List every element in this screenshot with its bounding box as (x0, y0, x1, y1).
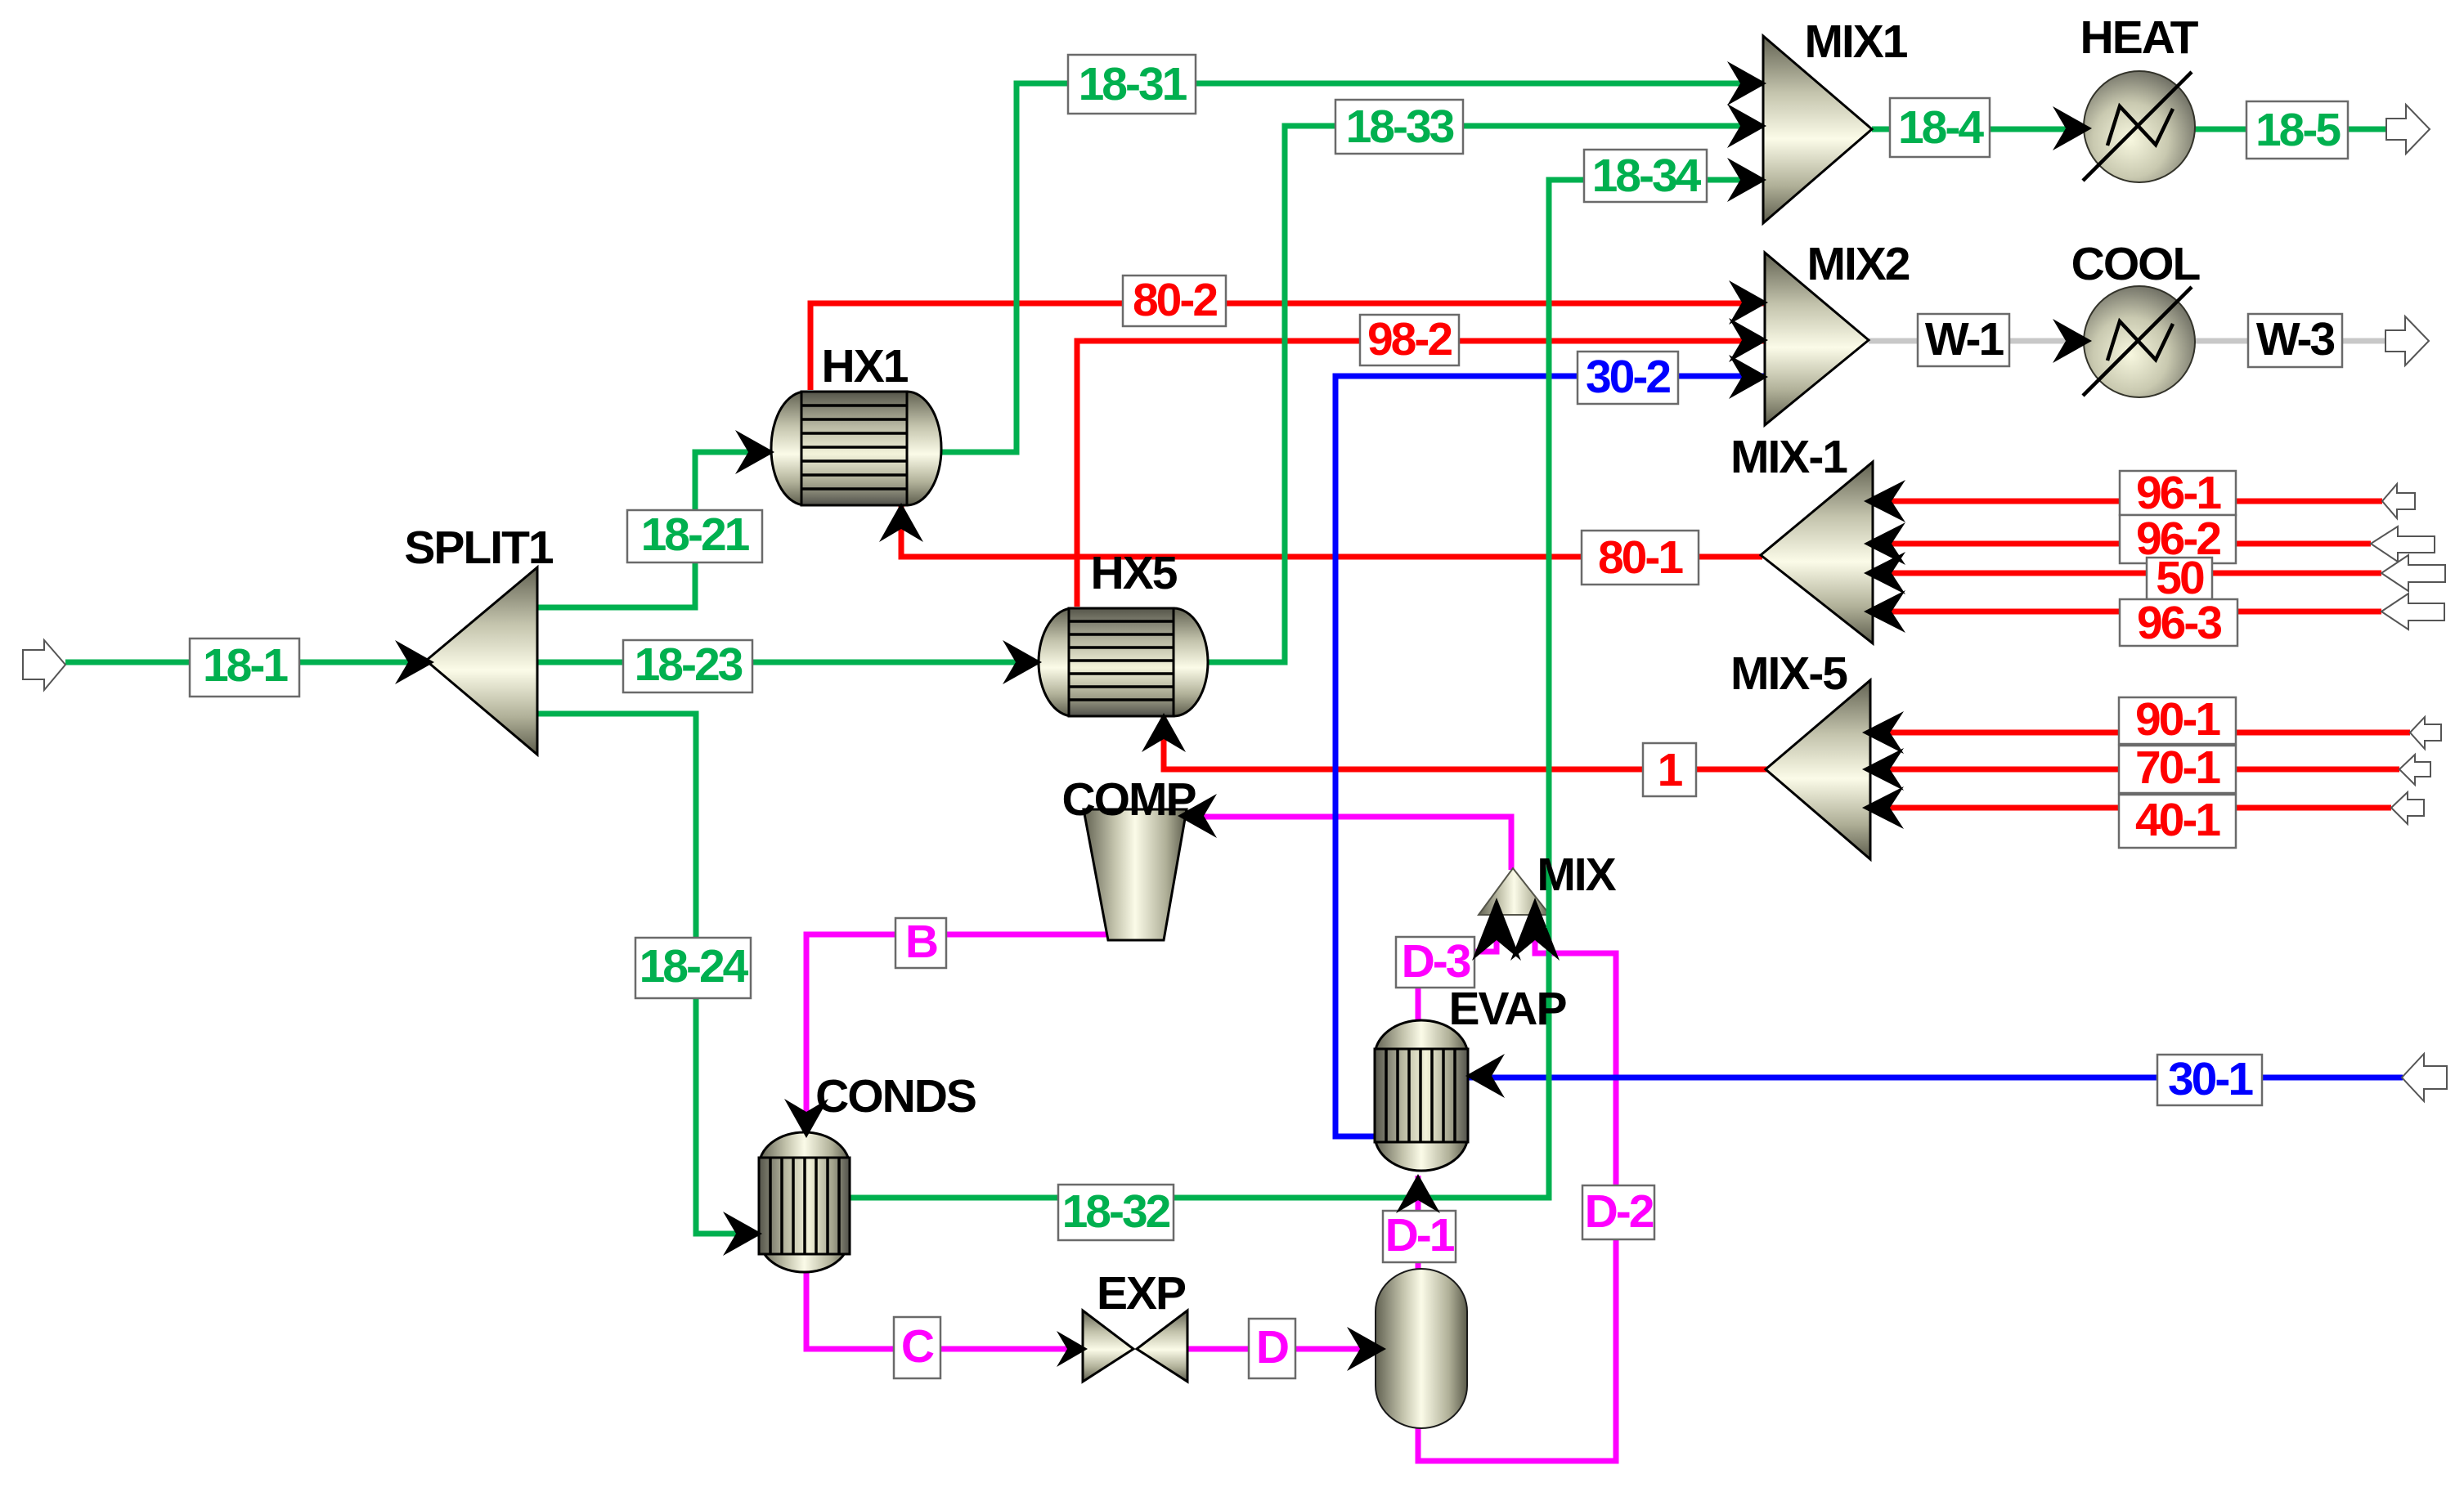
node 90-1 label (2119, 693, 2236, 746)
heat exchanger HX1 (771, 392, 941, 505)
arrow into SPLIT1 (395, 640, 434, 684)
wire 80-1 (MIX-1 outlet to HX1 bottom) (901, 504, 1762, 557)
svg-text:MIX2: MIX2 (1806, 238, 1909, 290)
node 96-3 label (2120, 597, 2237, 649)
arrow into MIX1 in1 (1727, 61, 1766, 105)
flash drum (1376, 1269, 1467, 1428)
wire D-2 (flash drum bottom to MIX) (1418, 917, 1616, 1461)
svg-text:HX5: HX5 (1091, 547, 1178, 599)
svg-text:18-34: 18-34 (1592, 150, 1702, 202)
wire 18-24 (SPLIT1 to CONDS) (536, 714, 761, 1234)
arrow into flash drum (1347, 1327, 1386, 1371)
arrow into MIX-1 in2 (1864, 522, 1905, 565)
arrow into MIX2 in2 (1729, 318, 1768, 362)
feed open-arrow 96-2 (2371, 526, 2435, 562)
node 18-34 label (1584, 150, 1707, 202)
arrow into EVAP shell (1465, 1054, 1505, 1098)
svg-text:CONDS: CONDS (815, 1070, 976, 1122)
wire 18-31 (HX1 to MIX1) (940, 83, 1768, 452)
arrow into COMP (1178, 794, 1217, 838)
node 30-1 label (2157, 1053, 2262, 1105)
svg-text:HEAT: HEAT (2080, 11, 2199, 64)
arrow into HX5 shell side (1142, 713, 1186, 752)
wire D-3 (EVAP top to MIX) (1418, 917, 1497, 1022)
feed open-arrow 30-1 (2402, 1054, 2447, 1101)
node B label (895, 916, 946, 968)
svg-text:18-5: 18-5 (2255, 104, 2341, 156)
arrow into CONDS side (723, 1212, 762, 1256)
node W-3 label (2248, 313, 2342, 367)
svg-text:SPLIT1: SPLIT1 (404, 522, 554, 574)
node 96-1 label (2120, 467, 2236, 519)
mixer MIX (small) (1479, 868, 1550, 915)
wire 96-3 input (1866, 609, 2381, 615)
feed open-arrow 40-1 (2391, 792, 2424, 824)
node D-2 label (1582, 1185, 1654, 1239)
arrow into MIX-1 in3 (1864, 552, 1905, 594)
arrow into MIX-1 in1 (1864, 480, 1905, 522)
svg-text:MIX1: MIX1 (1804, 16, 1907, 68)
wire 98-2 (HX5 top to MIX2) (1077, 341, 1766, 607)
arrow into HX1 shell side (879, 503, 923, 542)
svg-text:30-2: 30-2 (1586, 351, 1670, 403)
arrow into MIX1 in2 (1727, 104, 1766, 148)
arrow into MIX1 in3 (1727, 158, 1766, 202)
node 98-2 label (1360, 313, 1459, 365)
wire 18-33 (HX5 to MIX1) (1206, 126, 1768, 662)
svg-text:96-3: 96-3 (2137, 597, 2221, 649)
node 18-33 label (1335, 100, 1463, 154)
arrow into COOL (2053, 319, 2092, 363)
arrow into EXP (1057, 1331, 1088, 1367)
svg-text:MIX-1: MIX-1 (1730, 431, 1847, 483)
compressor COMP (1084, 809, 1187, 940)
feed open-arrow 96-3 (2381, 594, 2444, 630)
node 18-23 label (623, 638, 752, 692)
feed open-arrow 96-1 (2382, 484, 2415, 518)
wire D-1 (flash drum top to EVAP bottom) (1416, 1176, 1421, 1272)
wire MIX outlet to COMP inlet (1179, 817, 1511, 870)
svg-text:80-1: 80-1 (1598, 531, 1683, 584)
node 70-1 label (2119, 742, 2236, 794)
arrow into CONDS top (784, 1099, 828, 1138)
feed open-arrow 50 (2381, 555, 2445, 591)
arrow into MIX in2 (1510, 898, 1560, 961)
svg-text:18-24: 18-24 (640, 940, 749, 992)
svg-text:COOL: COOL (2071, 238, 2201, 290)
node 80-2 label (1123, 274, 1226, 326)
feed open-arrow 18-1 (23, 640, 65, 690)
cooler COOL (2083, 286, 2195, 397)
svg-text:18-21: 18-21 (641, 509, 750, 561)
svg-text:MIX-5: MIX-5 (1730, 647, 1847, 700)
product open-arrow W-3 (2385, 316, 2429, 365)
svg-text:W-3: W-3 (2256, 313, 2335, 365)
arrow into HX1 tube side (735, 430, 774, 474)
svg-text:80-2: 80-2 (1133, 274, 1217, 326)
wire 18-34 overlay over MIX cone (1546, 854, 1552, 928)
wire 18-5 (HEAT outlet) (2193, 127, 2404, 132)
node 18-31 label (1068, 55, 1196, 114)
svg-text:MIX: MIX (1537, 849, 1616, 901)
svg-text:18-23: 18-23 (635, 638, 743, 691)
wire 96-2 input (1866, 541, 2371, 547)
wire 80-2 (HX1 top to MIX2) (810, 303, 1766, 390)
svg-text:D-1: D-1 (1385, 1209, 1455, 1261)
arrow into MIX-5 in2 (1862, 748, 1904, 791)
BOXES (190, 55, 2348, 1378)
svg-text:D-3: D-3 (1402, 935, 1470, 988)
wire 70-1 input (1865, 767, 2399, 773)
arrow into HX5 tube side (1003, 640, 1042, 684)
wire W-3 (COOL outlet) (2193, 338, 2403, 344)
wire 90-1 input (1865, 730, 2410, 736)
node 96-2 label (2120, 513, 2236, 565)
wire 18-32 / 18-34 (CONDS to MIX1) (848, 180, 1768, 1198)
svg-text:96-1: 96-1 (2136, 467, 2221, 519)
node 18-1 label (190, 638, 299, 697)
node D-1 label (1383, 1209, 1456, 1262)
svg-text:18-32: 18-32 (1062, 1185, 1170, 1238)
svg-text:1: 1 (1658, 744, 1683, 796)
condenser CONDS (759, 1132, 850, 1272)
node D-3 label (1396, 935, 1474, 988)
svg-text:D-2: D-2 (1585, 1185, 1654, 1238)
node 18-4 label (1890, 98, 1990, 157)
svg-text:EXP: EXP (1097, 1267, 1186, 1320)
node 1 label (1643, 743, 1696, 796)
arrow into MIX-1 in4 (1864, 590, 1905, 633)
wire 50 input (1866, 571, 2381, 576)
svg-text:90-1: 90-1 (2135, 693, 2220, 746)
arrow into MIX-5 in1 (1862, 711, 1904, 754)
node 30-2 label (1578, 351, 1678, 404)
wire 30-1 (input to EVAP shell) (1467, 1075, 2403, 1081)
node D label (1249, 1319, 1295, 1378)
wire 18-23 (SPLIT1 to HX5) (536, 660, 1040, 665)
svg-text:18-4: 18-4 (1898, 101, 1984, 154)
mixer MIX-5 (1766, 680, 1870, 859)
wire 30-2 (EVAP shell to MIX2) (1335, 376, 1766, 1136)
wire 96-1 input (1866, 499, 2382, 504)
node 50 label (2147, 552, 2212, 604)
heater HEAT (2083, 71, 2195, 182)
node 18-5 label (2246, 101, 2348, 159)
wire 18-1 (feed to SPLIT1) (65, 660, 429, 665)
node 18-24 label (635, 938, 751, 998)
arrow into HEAT (2053, 106, 2092, 150)
arrow into MIX2 in3 (1729, 355, 1768, 399)
svg-text:98-2: 98-2 (1367, 313, 1452, 365)
arrow into MIX-5 in3 (1862, 786, 1904, 829)
product open-arrow 18-5 (2386, 105, 2430, 154)
node 80-1 label (1582, 531, 1699, 585)
node 40-1 label (2119, 794, 2236, 848)
TITLES (404, 11, 2200, 1320)
arrow into MIX in1 (1472, 898, 1521, 961)
svg-text:C: C (901, 1320, 934, 1373)
valve EXP (1083, 1311, 1187, 1382)
splitter SPLIT1 (426, 567, 537, 755)
wire D (EXP to flash drum) (1187, 1346, 1380, 1352)
wire 18-21 (SPLIT1 to HX1) (536, 452, 773, 607)
svg-text:W-1: W-1 (1925, 313, 2004, 365)
svg-text:HX1: HX1 (822, 340, 909, 392)
svg-text:18-1: 18-1 (203, 639, 288, 692)
svg-text:40-1: 40-1 (2135, 794, 2220, 846)
mixer MIX1 (1763, 36, 1872, 223)
mixer MIX-1 (1761, 462, 1873, 643)
wire C (CONDS bottom to EXP) (806, 1270, 1081, 1349)
feed open-arrow 90-1 (2410, 717, 2441, 749)
svg-text:EVAP: EVAP (1449, 983, 1567, 1035)
svg-text:D: D (1256, 1321, 1288, 1373)
wire W-1 (MIX2 outlet to COOL) (1869, 338, 2085, 344)
node W-1 label (1918, 313, 2009, 366)
svg-text:18-31: 18-31 (1079, 58, 1187, 110)
wire 40-1 input (1865, 805, 2391, 811)
svg-text:18-33: 18-33 (1346, 101, 1454, 153)
node C label (894, 1317, 940, 1378)
node 18-21 label (627, 509, 762, 562)
arrow into EVAP tube (1396, 1174, 1440, 1213)
node 18-32 label (1058, 1185, 1174, 1240)
heat exchanger HX5 (1039, 608, 1208, 716)
wire 1 (MIX-5 outlet to HX5 bottom) (1164, 715, 1767, 769)
arrow into MIX2 in1 (1729, 280, 1768, 325)
mixer MIX2 (1765, 253, 1869, 425)
evaporator EVAP (1375, 1020, 1468, 1171)
wire 18-4 (MIX1 to HEAT) (1872, 127, 2090, 132)
wire B (COMP outlet to CONDS top) (806, 934, 1112, 1135)
svg-text:COMP: COMP (1062, 773, 1196, 826)
svg-text:B: B (905, 916, 937, 968)
svg-text:70-1: 70-1 (2135, 742, 2220, 794)
svg-text:30-1: 30-1 (2168, 1053, 2253, 1105)
feed open-arrow 70-1 (2399, 755, 2430, 785)
